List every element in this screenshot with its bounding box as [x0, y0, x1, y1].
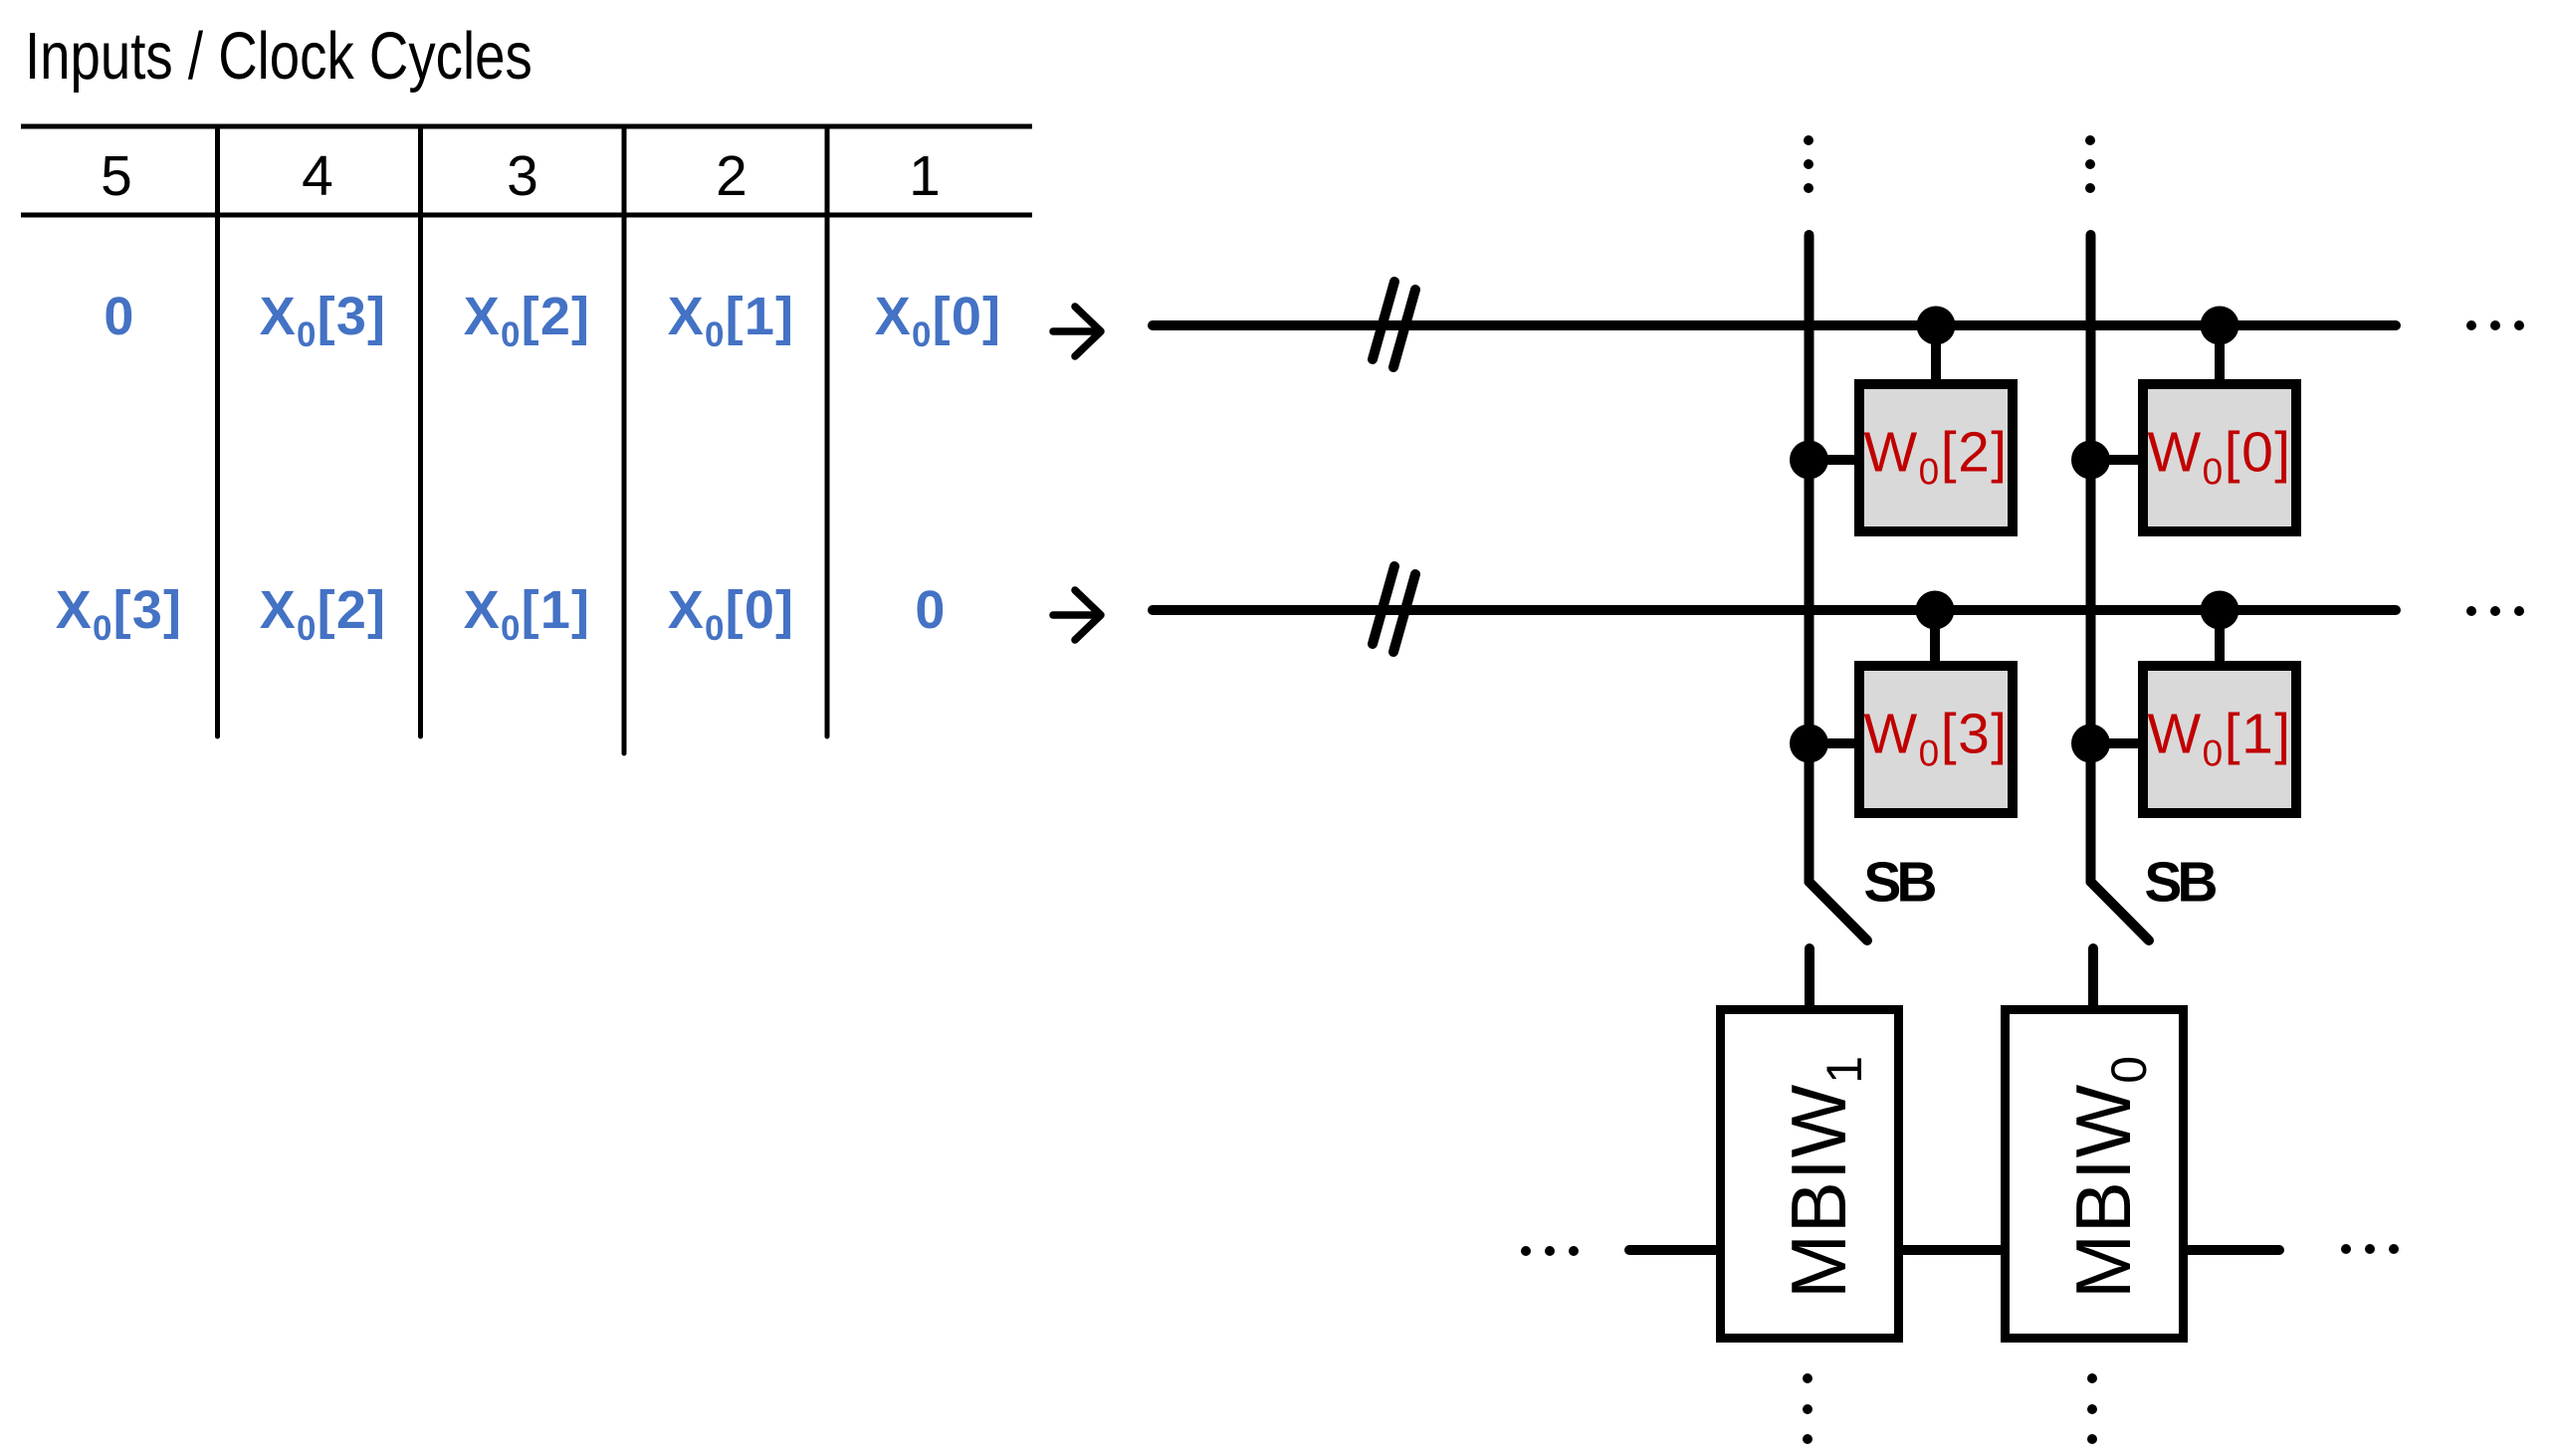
stub bitline1 to W0[3] [1810, 738, 1859, 748]
arrow into row wire 1 [1053, 307, 1101, 356]
memristor cell W0[2] [1859, 384, 2013, 531]
switch SB1 arm [1810, 882, 1868, 940]
svg-text:SB: SB [2144, 851, 2216, 915]
block MBIW1 [1721, 1010, 1899, 1339]
svg-text:X0[1]: X0[1] [668, 287, 795, 354]
stub bitline2 to W0[0] [2091, 455, 2143, 465]
vertical dots below MBIW0 [2087, 1373, 2097, 1444]
bit line 1 (vertical) [1805, 235, 1814, 882]
switch SB1 lower stub [1805, 948, 1814, 1008]
stub wire2 to W0[1] [2215, 610, 2225, 665]
bit line 2 (vertical) [2086, 235, 2096, 882]
ellipsis right of wire 2 [2466, 606, 2524, 616]
svg-text:Inputs / Clock Cycles: Inputs / Clock Cycles [25, 19, 532, 94]
memristor cell W0[0] [2143, 384, 2296, 531]
ellipsis left of MBIW1 lead [1521, 1246, 1579, 1256]
stub wire1 to W0[0] [2215, 325, 2225, 383]
svg-text:2: 2 [716, 144, 747, 208]
junction dot wire2 / W0[1] stub [2201, 591, 2239, 630]
block MBIW0 [2006, 1010, 2184, 1339]
vertical dots above bit line 2 [2085, 135, 2095, 193]
junction dot bitline1 / W0[3] [1790, 725, 1828, 763]
stub wire2 to W0[3] [1930, 610, 1940, 665]
lead out of MBIW0 [2188, 1245, 2279, 1255]
memristor cell W0[3] [1859, 666, 2013, 813]
junction dot wire1 / W0[2] stub [1917, 307, 1956, 345]
junction dot wire2 / W0[3] stub [1916, 591, 1955, 630]
column divider 5/4 [215, 126, 220, 736]
column divider 3/2 [622, 126, 627, 753]
vertical dots below MBIW1 [1803, 1373, 1812, 1444]
arrow into row wire 2 [1053, 590, 1101, 640]
stub wire1 to W0[2] [1931, 325, 1941, 383]
vertical dots above bit line 1 [1804, 135, 1813, 193]
junction dot bitline1 / W0[2] [1790, 441, 1828, 480]
svg-text:X0[0]: X0[0] [875, 287, 1002, 354]
column divider 4/3 [418, 126, 423, 736]
svg-text:X0[1]: X0[1] [464, 580, 591, 648]
svg-text:1: 1 [909, 144, 941, 208]
table header bottom horizontal line [21, 213, 1032, 218]
wire row 1 (word line) [1153, 320, 2396, 330]
junction dot bitline2 / W0[0] [2071, 441, 2110, 480]
ellipsis right of MBIW0 lead [2341, 1244, 2399, 1254]
svg-text:4: 4 [302, 144, 333, 208]
bus slash pair on wire 2 [1373, 566, 1394, 644]
svg-text:X0[2]: X0[2] [464, 287, 591, 354]
column divider 2/1 [825, 126, 830, 736]
ellipsis right of wire 1 [2466, 320, 2524, 330]
svg-text:SB: SB [1863, 851, 1935, 915]
svg-text:X0[0]: X0[0] [668, 580, 795, 648]
switch SB2 arm [2091, 882, 2150, 940]
svg-text:0: 0 [915, 580, 946, 640]
svg-text:X0[2]: X0[2] [260, 580, 387, 648]
junction dot wire1 / W0[0] stub [2201, 307, 2239, 345]
bus slash pair on wire 1 [1373, 282, 1394, 359]
svg-text:MBIW0: MBIW0 [2059, 1055, 2157, 1299]
svg-text:X0[3]: X0[3] [260, 287, 387, 354]
switch SB2 lower stub [2088, 948, 2098, 1008]
lead into MBIW1 [1629, 1245, 1716, 1255]
memristor cell W0[1] [2143, 666, 2296, 813]
stub bitline1 to W0[2] [1810, 455, 1859, 465]
lead between MBIW1 and MBIW0 [1903, 1245, 2001, 1255]
wire row 2 (word line) [1153, 605, 2396, 615]
svg-text:3: 3 [507, 144, 538, 208]
svg-text:X0[3]: X0[3] [56, 580, 183, 648]
junction dot bitline2 / W0[1] [2071, 725, 2110, 763]
svg-text:MBIW1: MBIW1 [1775, 1055, 1872, 1299]
table top horizontal line [21, 124, 1032, 129]
svg-text:0: 0 [104, 287, 134, 346]
stub bitline2 to W0[1] [2091, 738, 2143, 748]
svg-text:5: 5 [101, 144, 132, 208]
